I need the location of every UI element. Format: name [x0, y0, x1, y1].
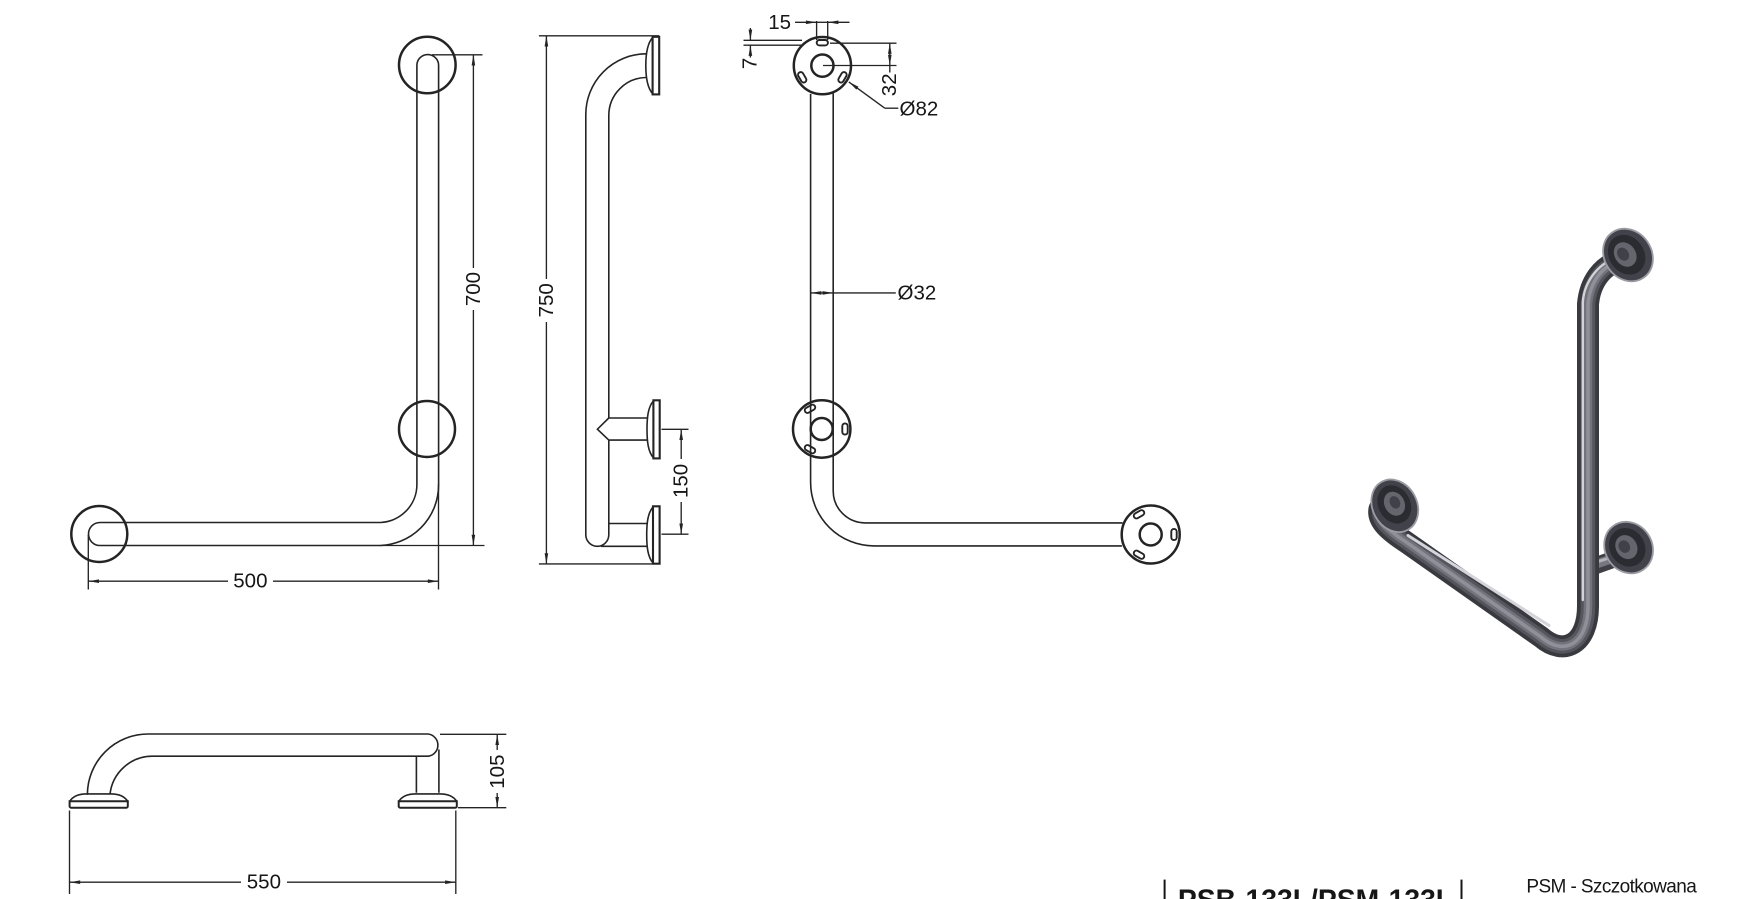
- svg-text:550: 550: [247, 871, 281, 894]
- v2 bottom wall flange: [647, 506, 660, 563]
- svg-text:150: 150: [670, 464, 693, 498]
- svg-text:500: 500: [233, 570, 267, 593]
- v1 middle wall flange circle: [399, 401, 455, 457]
- v3 dimension 7: [739, 28, 802, 69]
- v4 dimension 550: [70, 811, 456, 895]
- v3 end mounting plate: [1122, 506, 1180, 564]
- v3 dimension 32 vertical: [823, 43, 901, 96]
- 3d mid-right flange: [1595, 513, 1663, 583]
- svg-text:700: 700: [462, 272, 485, 306]
- svg-text:PSM - Szczotkowana: PSM - Szczotkowana: [1526, 876, 1697, 897]
- svg-text:Ø82: Ø82: [900, 97, 939, 120]
- svg-text:750: 750: [535, 283, 558, 317]
- v1 top wall flange circle: [399, 37, 456, 94]
- v4 right flange: [399, 794, 457, 808]
- svg-text:15: 15: [768, 11, 791, 34]
- v1 tube outline: [89, 55, 439, 546]
- svg-text:105: 105: [486, 754, 509, 788]
- v2 dimension 750: [535, 36, 659, 564]
- v3 leader dia 82: [849, 82, 938, 120]
- v2 tube outline: [586, 54, 646, 547]
- title divider bars: [1164, 880, 1166, 899]
- 3d top flange: [1593, 219, 1663, 291]
- svg-text:7: 7: [739, 58, 762, 69]
- v2 middle flange stub tube: [597, 418, 647, 440]
- v2 top wall flange: [646, 37, 659, 95]
- v3 middle mounting plate: [793, 400, 850, 457]
- svg-text:Ø32: Ø32: [898, 282, 937, 305]
- v2 middle wall flange: [647, 400, 660, 458]
- v3 tube outline: [811, 94, 1123, 546]
- v4 tube outline: [87, 734, 438, 795]
- v1 dimension 700: [380, 55, 485, 546]
- v4 right mounting post: [416, 750, 439, 793]
- svg-text:PSB-133L/PSM-133L: PSB-133L/PSM-133L: [1178, 884, 1453, 899]
- v1 dimension 500: [88, 484, 438, 593]
- v2 bottom flange stub tube: [601, 524, 647, 547]
- v3 dimension 15: [768, 11, 849, 40]
- v3 dimension dia 32 tube: [811, 282, 937, 305]
- v1 left wall flange circle: [71, 506, 127, 562]
- v4 left flange: [70, 794, 128, 808]
- svg-text:32: 32: [878, 73, 901, 96]
- 3d left flange: [1362, 471, 1427, 540]
- 3d mid-right flange stub: [1592, 557, 1620, 567]
- v2 dimension 150: [662, 429, 693, 534]
- v4 dimension 105: [440, 734, 509, 807]
- 3d main tube: [1379, 257, 1622, 647]
- v3 top mounting plate: [794, 37, 851, 94]
